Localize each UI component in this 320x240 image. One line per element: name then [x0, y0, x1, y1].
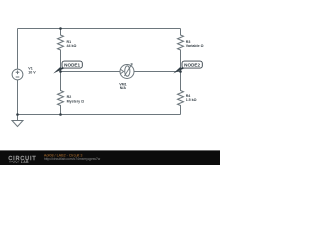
junction dot ground	[16, 113, 19, 116]
resistor R2	[58, 72, 64, 115]
label VM1 value	[119, 83, 126, 91]
svg-text:NODE2: NODE2	[184, 63, 200, 68]
junction dot top R1	[59, 27, 62, 30]
resistor R4	[178, 72, 184, 115]
junction dot NODE1	[59, 70, 62, 73]
svg-text:Variable Ω: Variable Ω	[186, 44, 204, 48]
junction dot bottom R2	[59, 113, 62, 116]
label R2 value	[67, 95, 85, 103]
svg-text:http://circuitlab.com/c74mxmyq: http://circuitlab.com/c74mxmyqpnw7w	[44, 157, 101, 161]
label R3 value	[186, 40, 204, 48]
footer logo CIRCUIT LAB	[8, 156, 36, 164]
svg-text:NODE1: NODE1	[64, 63, 80, 68]
wire middle right (VM1 to NODE2)	[134, 71, 181, 73]
label V1 value	[28, 67, 36, 75]
svg-text:10 V: 10 V	[28, 70, 36, 74]
node flag NODE1	[53, 61, 82, 73]
label R4 value	[186, 94, 197, 102]
label R1 value	[67, 40, 77, 48]
voltage source V1	[12, 69, 23, 80]
ground	[12, 115, 23, 127]
wire top rail	[18, 28, 181, 30]
svg-text:LAB: LAB	[21, 160, 29, 164]
wire left lower (V1 bottom lead)	[17, 80, 19, 115]
voltmeter VM1	[120, 64, 134, 79]
junction dot NODE2	[179, 70, 182, 73]
wire bottom rail	[18, 114, 181, 116]
svg-text:1.5 kΩ: 1.5 kΩ	[186, 98, 197, 102]
svg-text:N/A: N/A	[120, 86, 127, 90]
footer bar	[0, 150, 220, 165]
wire left upper (V1 top lead)	[17, 29, 19, 70]
resistor R3	[178, 29, 184, 72]
svg-text:44 kΩ: 44 kΩ	[67, 44, 77, 48]
node flag NODE2	[173, 61, 202, 73]
resistor R1	[58, 29, 64, 72]
wire middle left (NODE1 to VM1)	[61, 71, 121, 73]
svg-text:Mystery Ω: Mystery Ω	[67, 100, 85, 104]
